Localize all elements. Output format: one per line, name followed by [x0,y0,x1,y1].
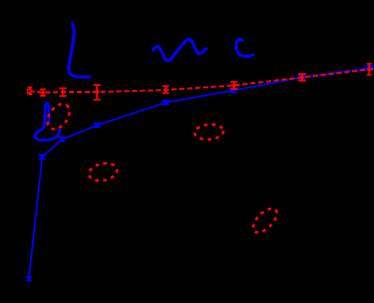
blue handwritten c stroke [236,39,253,56]
red circle marker at point 4 [95,90,99,94]
blue handwritten L stroke [69,24,90,77]
red dashed hand ellipse 1 (around loop) [43,100,74,133]
red error bar at point 7 [298,74,306,81]
red dashed hand ellipse 3 [194,123,224,140]
blue marker hourglass at point 1 [26,277,32,281]
red circle marker at point 2 [41,91,45,95]
blue marker hourglass at point 3 [58,137,65,141]
red error bar at point 4 [93,85,100,100]
red dashed hand ellipse 2 [87,161,118,183]
red circle marker at point 8 [367,67,371,71]
red circle marker at point 6 [232,83,236,87]
red error bar at point 6 [230,82,237,89]
blue data curve [29,67,374,279]
blue marker hourglass at point 6 [230,88,237,92]
blue marker hourglass at point 2 [39,155,46,159]
red circle marker at point 5 [164,88,168,92]
blue marker hourglass at point 7 [298,75,305,79]
red circle marker at point 7 [300,75,304,79]
blue handwritten wave stroke [153,39,206,61]
blue marker hourglass at point 8 [366,66,373,70]
blue marker hourglass at point 5 [162,100,169,104]
red open square marker at point 1 [28,89,32,93]
red error bar at point 2 [40,89,46,96]
blue marker hourglass at point 4 [93,123,100,127]
red error bar at point 1 [28,87,33,94]
red dashed hand ellipse 4 [249,205,281,237]
red error bar at point 8 [367,64,372,75]
blue handwritten loop-arrow stroke [35,103,60,140]
red error bar at point 5 [162,86,169,93]
red circle marker at point 3 [61,90,65,94]
red error bar at point 3 [59,88,66,96]
red dashed line series [29,69,374,93]
